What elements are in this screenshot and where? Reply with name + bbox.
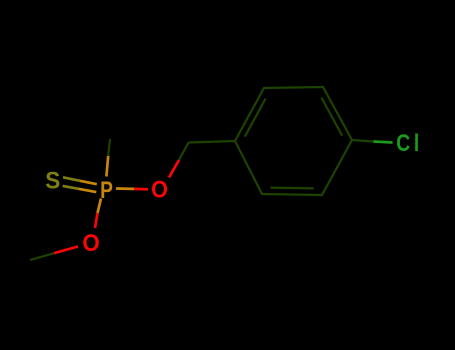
bond P-O (down) O half (95, 213, 98, 228)
bond O-CH3 C half (30, 253, 54, 260)
bond C-Cl C half (352, 140, 374, 142)
svg-text:O: O (151, 175, 168, 202)
bond P-CH3 (methyl up) P half (106, 156, 108, 177)
bond CH2-ring (189, 141, 236, 143)
aromatic inner bond L-TL (245, 99, 266, 137)
atom O label (benzyl ester O) (151, 175, 168, 202)
aromatic inner bond TR-R (321, 98, 342, 136)
bond C-Cl Cl half (374, 142, 393, 143)
double bond S=P upper line (63, 177, 80, 181)
atom O label (methoxy O) (82, 229, 99, 256)
svg-text:O: O (82, 229, 99, 256)
atom Cl label: C glyph (396, 129, 410, 157)
benzene ring outline (235, 87, 352, 195)
svg-text:l: l (414, 129, 419, 157)
svg-text:S: S (45, 167, 60, 194)
atom S label (45, 167, 60, 194)
bond P-O (down) P half (98, 199, 102, 214)
aromatic inner bond BR-BL (271, 187, 314, 190)
bond P-O (right) P half (116, 187, 134, 190)
atom P label (100, 176, 113, 204)
bond O-CH2 O half (169, 160, 179, 178)
double bond S=P lower line (63, 186, 79, 189)
bond P-CH3 (methyl up) C half (108, 139, 110, 156)
svg-text:C: C (396, 129, 410, 157)
bond O-CH3 O half (54, 247, 78, 254)
bond O-CH2 C half (179, 143, 189, 161)
atom Cl label: l glyph (414, 129, 419, 157)
bond P-O (right) O half (134, 188, 148, 191)
